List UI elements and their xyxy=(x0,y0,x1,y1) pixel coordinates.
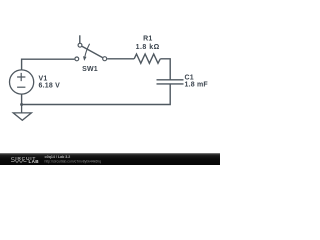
SW1 top terminal circle xyxy=(78,43,82,47)
wire R1 right lead to C1 top xyxy=(160,59,170,80)
SW1 right terminal circle xyxy=(103,57,107,61)
wire top-left: V1 top to SW1 left terminal xyxy=(22,59,75,70)
SW1 arrow head xyxy=(83,56,87,61)
ground xyxy=(13,105,31,121)
SW1 left terminal circle xyxy=(75,57,79,61)
svg-text:http://circuitlab.com/c7mv8ybk: http://circuitlab.com/c7mv8ybk44k6hq xyxy=(45,159,102,163)
capacitor C1 xyxy=(157,80,184,84)
CircuitLab logo: resistor squiggle xyxy=(11,160,27,162)
svg-text:V1: V1 xyxy=(39,76,48,83)
switch SW1 xyxy=(75,35,107,61)
svg-text:1.8 kΩ: 1.8 kΩ xyxy=(136,44,160,51)
resistor R1 xyxy=(134,54,160,63)
svg-text:SW1: SW1 xyxy=(82,66,98,73)
watermark bar xyxy=(0,153,220,165)
svg-text:1.8 mF: 1.8 mF xyxy=(185,82,209,89)
wire V1 bottom to ground node xyxy=(21,94,23,104)
SW1 top throw stub xyxy=(79,35,81,43)
svg-text:LAB: LAB xyxy=(29,159,40,164)
SW1 arm xyxy=(82,46,103,57)
svg-text:R1: R1 xyxy=(143,36,152,43)
wire SW1 right terminal to R1 left lead xyxy=(107,58,134,60)
wire C1 bottom to ground node xyxy=(22,84,171,105)
svg-text:6.18 V: 6.18 V xyxy=(39,83,61,90)
voltage source V1 xyxy=(10,70,34,94)
node junction dot xyxy=(20,103,23,106)
SW1 toggle arrow xyxy=(85,44,90,57)
